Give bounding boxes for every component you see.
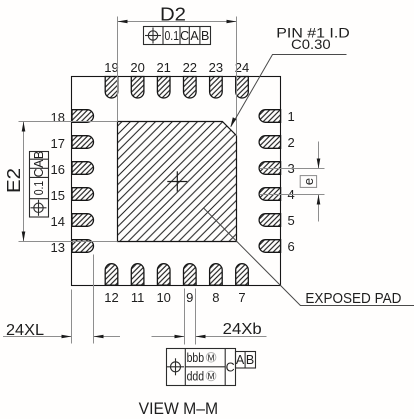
svg-text:C: C [180, 29, 189, 43]
dimension 24Xb line with arrows [152, 335, 267, 339]
pad pin 13 [72, 240, 94, 253]
pad pin 19 [105, 77, 118, 99]
svg-text:24XL: 24XL [6, 322, 44, 339]
svg-text:ddd: ddd [187, 368, 205, 383]
svg-text:2: 2 [288, 135, 295, 150]
svg-text:bbb: bbb [187, 350, 205, 365]
svg-text:24Xb: 24Xb [223, 321, 262, 338]
pad pin 17 [72, 136, 94, 149]
feature control frame (left): position 0.1 C A B (rotated) [29, 151, 49, 217]
svg-text:8: 8 [212, 290, 219, 305]
svg-text:A: A [236, 353, 245, 367]
pad pin 12 [105, 264, 118, 286]
dimension e extension lines [260, 169, 325, 195]
svg-text:18: 18 [51, 110, 65, 125]
svg-text:A: A [32, 159, 46, 168]
svg-text:5: 5 [288, 213, 295, 228]
svg-text:6: 6 [288, 239, 295, 254]
svg-text:C: C [226, 360, 235, 374]
dimension D2 line with arrows [118, 20, 237, 24]
svg-text:22: 22 [183, 60, 197, 75]
pad pin 24 [236, 77, 249, 99]
svg-text:M: M [208, 371, 215, 381]
pad pin 2 [259, 136, 281, 149]
svg-text:20: 20 [130, 60, 144, 75]
pad pin 23 [210, 77, 223, 98]
svg-text:7: 7 [238, 290, 245, 305]
svg-text:0.1: 0.1 [32, 181, 46, 196]
pad pin 3 [259, 162, 281, 175]
pad pin 21 [157, 77, 170, 99]
label e (boxed) [300, 176, 316, 188]
dimension 24Xb extension lines [185, 289, 196, 345]
svg-text:10: 10 [156, 290, 170, 305]
svg-text:17: 17 [51, 136, 65, 151]
svg-text:C0.30: C0.30 [291, 36, 331, 52]
svg-text:EXPOSED PAD: EXPOSED PAD [305, 290, 401, 307]
pad pin 9 [184, 264, 197, 286]
svg-text:13: 13 [51, 240, 65, 255]
center cross mark [167, 171, 187, 191]
pad pin 4 [259, 188, 281, 201]
svg-text:B: B [201, 29, 209, 43]
dimension E2 extension lines [19, 122, 118, 242]
svg-text:14: 14 [51, 214, 65, 229]
pad pin 8 [210, 264, 223, 286]
pad pin 22 [184, 77, 197, 99]
dimension D2 extension lines [118, 17, 237, 136]
svg-text:A: A [190, 29, 199, 43]
package body outline [72, 77, 281, 286]
svg-text:12: 12 [104, 290, 118, 305]
pad pin 5 [259, 214, 281, 227]
pad pin 16 [72, 162, 94, 175]
exposed pad (hatched, chamfered pin-1 corner) [118, 122, 237, 242]
pad pin 7 [236, 264, 249, 286]
dimension 24XL line with arrows [3, 335, 120, 339]
pad pin 18 [72, 110, 94, 123]
dimension E2 line with arrows [22, 122, 26, 242]
feature control frame (bottom): position bbb/ddd C A B [167, 348, 256, 386]
svg-text:B: B [246, 353, 254, 367]
feature control frame (top): position 0.1 C A B [144, 27, 211, 45]
svg-text:21: 21 [156, 60, 170, 75]
pad pin 11 [131, 264, 144, 285]
svg-text:23: 23 [209, 60, 223, 75]
svg-text:19: 19 [104, 60, 118, 75]
dimension e line with arrows [317, 142, 321, 222]
svg-text:M: M [208, 352, 215, 362]
dimension 24XL extension lines [72, 255, 94, 344]
pad pin 14 [72, 214, 94, 227]
svg-text:1: 1 [288, 109, 295, 124]
leader EXPOSED PAD [204, 208, 414, 305]
svg-text:16: 16 [51, 162, 65, 177]
svg-text:D2: D2 [160, 4, 186, 24]
svg-text:0.1: 0.1 [165, 29, 180, 43]
pad pin 10 [157, 264, 170, 286]
pad pin 6 [259, 240, 281, 253]
svg-text:9: 9 [186, 290, 193, 305]
svg-text:C: C [32, 168, 46, 177]
svg-text:VIEW M–M: VIEW M–M [139, 399, 219, 418]
pad pin 20 [131, 77, 144, 98]
svg-text:B: B [32, 151, 46, 159]
leader PIN #1 I.D [231, 55, 347, 128]
svg-text:e: e [301, 178, 316, 185]
pad pin 15 [72, 188, 94, 201]
svg-text:15: 15 [51, 188, 65, 203]
svg-text:11: 11 [131, 290, 145, 305]
pad pin 1 [259, 110, 281, 123]
svg-text:E2: E2 [4, 168, 24, 193]
